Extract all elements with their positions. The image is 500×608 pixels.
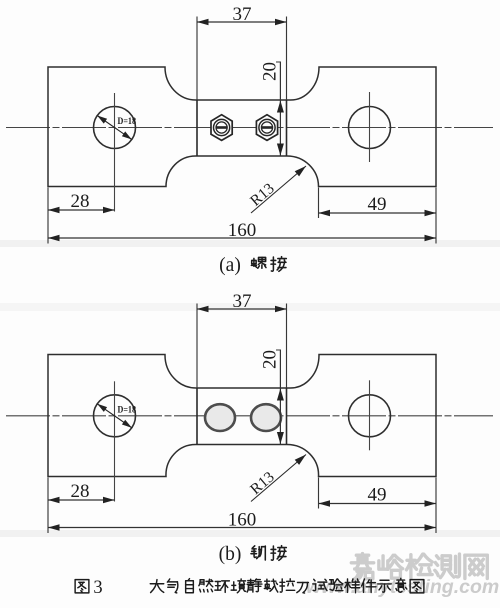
leader R13 (fillet radius) (b) bbox=[251, 455, 306, 502]
svg-text:160: 160 bbox=[228, 220, 257, 241]
dimension 37 (overlap length) (a) bbox=[196, 17, 198, 101]
dimension 28 (hole offset) (a) bbox=[47, 188, 49, 244]
specimen outline (b) : two lapped plates bbox=[48, 355, 436, 477]
svg-text:D=18: D=18 bbox=[118, 116, 137, 126]
left grip hole D=18 (b) bbox=[94, 395, 136, 437]
horizontal centerline (b) bbox=[6, 415, 493, 417]
svg-text:160: 160 bbox=[228, 510, 257, 531]
plate end edges (overlap joint box) (a) bbox=[196, 100, 198, 156]
hex bolt 1 (a) bbox=[211, 115, 232, 141]
svg-text:49: 49 bbox=[368, 485, 387, 506]
dimension 37 (overlap length) (b) bbox=[196, 304, 198, 389]
dimension 20 (strip width) (a) bbox=[279, 62, 281, 156]
svg-text:28: 28 bbox=[71, 191, 90, 212]
diameter leader arrows in left hole (a) bbox=[97, 116, 132, 140]
dimension 49 (right hole offset) (a) bbox=[318, 188, 320, 219]
dimension 160 (overall length) (a) bbox=[48, 237, 436, 239]
svg-text:28: 28 bbox=[71, 481, 90, 502]
dimension 20 (strip width) (b) bbox=[279, 350, 281, 445]
svg-text:(a): (a) bbox=[219, 255, 241, 276]
vertical centerline of left hole (b) bbox=[114, 381, 116, 501]
rivet 1 (b) bbox=[205, 404, 235, 431]
svg-text:37: 37 bbox=[233, 291, 252, 312]
svg-text:37: 37 bbox=[233, 4, 252, 25]
dimension 49 (right hole offset) (b) bbox=[318, 478, 320, 509]
plate end edges (overlap joint box) (b) bbox=[196, 388, 198, 445]
specimen outline (a) : two lapped plates bbox=[48, 67, 436, 187]
rivet 2 (b) bbox=[251, 404, 281, 431]
watermark: jiayu jiance wang bbox=[351, 554, 373, 580]
svg-text:D=18: D=18 bbox=[118, 404, 137, 414]
right grip hole (a) bbox=[349, 107, 391, 149]
dimension 160 (overall length) (b) bbox=[48, 527, 436, 529]
left grip hole D=18 (a) bbox=[94, 107, 136, 149]
vertical centerline of right hole (b) bbox=[369, 380, 371, 450]
svg-text:20: 20 bbox=[260, 350, 281, 369]
svg-text:3: 3 bbox=[93, 578, 102, 598]
vertical centerline of left hole (a) bbox=[114, 93, 116, 212]
svg-text:49: 49 bbox=[368, 194, 387, 215]
right grip hole (b) bbox=[349, 395, 391, 437]
hex bolt 2 (a) bbox=[256, 115, 277, 141]
horizontal centerline (a) bbox=[6, 127, 493, 129]
svg-text:(b): (b) bbox=[219, 544, 242, 565]
dimension 28 (hole offset) (b) bbox=[47, 478, 49, 534]
figure caption: tu 3 da qi zi ran huan jing jing zai la li shi yan yang jian shi yi tu bbox=[75, 580, 89, 593]
svg-text:20: 20 bbox=[260, 62, 281, 81]
faint artifact bands bbox=[0, 240, 500, 247]
leader R13 (fillet radius) (a) bbox=[251, 166, 306, 213]
vertical centerline of right hole (a) bbox=[369, 92, 371, 162]
diameter leader arrows in left hole (b) bbox=[97, 404, 132, 428]
